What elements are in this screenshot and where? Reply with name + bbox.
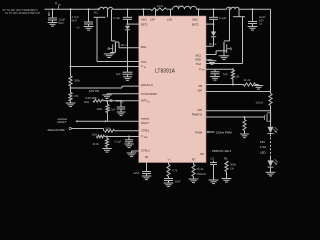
svg-text:×2: ×2 [259, 22, 263, 26]
svg-text:300kHz: 300kHz [197, 172, 207, 176]
svg-text:6mΩ: 6mΩ [157, 4, 163, 8]
svg-text:2.2µH: 2.2µH [176, 4, 183, 8]
svg-text:CTRL2: CTRL2 [141, 149, 150, 153]
svg-text:CTRL1: CTRL1 [141, 128, 150, 132]
svg-text:M3 ×2: M3 ×2 [209, 42, 217, 46]
svg-text:BG2: BG2 [196, 53, 202, 57]
svg-text:SYNC/SPRD: SYNC/SPRD [141, 92, 157, 96]
svg-text:PWM: PWM [195, 131, 202, 135]
svg-text:100k: 100k [97, 107, 103, 111]
svg-text:0.1µF: 0.1µF [219, 16, 226, 20]
svg-text:GND: GND [195, 58, 201, 62]
svg-text:LSP: LSP [150, 18, 155, 22]
svg-text:PWMTG: PWMTG [192, 112, 202, 116]
svg-text:×2: ×2 [76, 26, 80, 30]
svg-text:5.5V ON: 5.5V ON [89, 89, 99, 93]
svg-text:10nF: 10nF [175, 179, 182, 183]
svg-text:SW1: SW1 [141, 18, 147, 22]
svg-text:V: V [141, 64, 143, 68]
svg-text:TG1: TG1 [141, 60, 147, 64]
svg-text:SW2: SW2 [192, 18, 198, 22]
svg-text:BST2: BST2 [192, 23, 199, 27]
svg-text:BG1: BG1 [141, 45, 147, 49]
svg-text:16V: 16V [260, 140, 265, 144]
svg-text:100k: 100k [92, 132, 98, 136]
svg-text:47k: 47k [74, 94, 79, 98]
svg-text:1%: 1% [230, 167, 235, 171]
svg-text:SS: SS [145, 155, 149, 159]
svg-text:0.1µF: 0.1µF [115, 139, 122, 143]
svg-text:RT: RT [192, 157, 196, 161]
svg-text:100k: 100k [84, 100, 90, 104]
svg-text:RP: RP [200, 152, 204, 156]
svg-text:LT8391A: LT8391A [155, 68, 176, 74]
svg-text:R1: R1 [224, 157, 228, 161]
svg-text:41.2k: 41.2k [244, 78, 251, 82]
svg-text:16V: 16V [259, 18, 264, 22]
svg-text:50V: 50V [59, 21, 64, 25]
svg-text:ISP: ISP [198, 89, 203, 93]
svg-text:1.5A: 1.5A [260, 145, 266, 149]
svg-text:ISN: ISN [198, 108, 203, 112]
svg-text:OUT: OUT [201, 70, 206, 72]
svg-text:1µF: 1µF [116, 72, 121, 76]
svg-text:LED: LED [260, 150, 266, 154]
svg-text:BST1: BST1 [141, 23, 148, 27]
svg-text:PWM DC 100:1: PWM DC 100:1 [212, 149, 232, 153]
svg-text:0.1µF: 0.1µF [113, 16, 120, 20]
svg-text:100Hz PWM: 100Hz PWM [216, 131, 232, 135]
svg-text:FAULT: FAULT [58, 120, 67, 124]
svg-text:LSN: LSN [167, 18, 172, 22]
svg-text:CC: CC [147, 101, 151, 103]
svg-text:FAULT: FAULT [141, 121, 150, 125]
svg-text:4V TO 60V AFTER START-UP: 4V TO 60V AFTER START-UP [5, 11, 40, 15]
svg-text:49.9k: 49.9k [93, 142, 100, 146]
svg-text:ANALOG DIM: ANALOG DIM [48, 128, 66, 132]
svg-text:FB: FB [199, 84, 203, 88]
svg-text:383k: 383k [74, 79, 80, 83]
svg-text:4.7µF: 4.7µF [109, 108, 116, 112]
svg-text:C1: C1 [211, 157, 215, 161]
svg-text:50V: 50V [72, 19, 77, 23]
svg-text:60.4k: 60.4k [197, 167, 204, 171]
svg-text:EN/UVLO: EN/UVLO [141, 83, 153, 87]
svg-text:22nF: 22nF [134, 171, 141, 175]
svg-text:TG2: TG2 [196, 62, 202, 66]
svg-text:1µF: 1µF [223, 72, 228, 76]
svg-text:V: V [141, 134, 143, 138]
svg-text:4.7k: 4.7k [172, 169, 178, 173]
svg-text:REF: REF [144, 137, 149, 139]
svg-text:100k: 100k [105, 126, 111, 130]
svg-text:10mΩ: 10mΩ [256, 101, 264, 105]
svg-text:10µF: 10µF [259, 15, 266, 19]
svg-text:M1: M1 [94, 11, 98, 15]
